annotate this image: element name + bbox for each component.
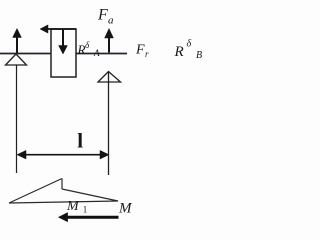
reaction arrow at A (up, filled) (13, 29, 22, 54)
svg-text:B: B (196, 50, 202, 61)
axial force Fa arrow (up, filled) (105, 29, 114, 53)
tangential force arrow (left, filled) (40, 25, 76, 33)
svg-text:A: A (93, 48, 100, 58)
svg-text:M: M (66, 199, 80, 214)
beam (shaft axis) (0, 53, 127, 55)
label Fr (135, 43, 149, 60)
svg-text:l: l (77, 129, 83, 153)
label M1 (66, 199, 87, 215)
extension line below support A (16, 65, 18, 173)
gear body box (51, 29, 76, 77)
svg-text:R: R (174, 44, 184, 60)
reaction arrow at B (up, hollow head) (98, 72, 121, 176)
svg-text:F: F (97, 7, 108, 24)
label Fa (97, 7, 114, 27)
svg-text:F: F (135, 43, 145, 58)
label R^b_B (174, 39, 203, 62)
radial force arrow inside box (down, filled) (59, 29, 68, 54)
moment diagram M1 outline (9, 179, 118, 204)
label R^b_A (77, 40, 101, 58)
support A triangle (6, 54, 27, 65)
svg-text:r: r (145, 49, 149, 59)
dimension line l (17, 150, 109, 159)
svg-text:M: M (118, 201, 133, 217)
torque arrow M (bold left) (58, 213, 118, 222)
svg-text:a: a (108, 15, 114, 27)
svg-text:1: 1 (83, 205, 88, 215)
svg-text:δ: δ (187, 39, 192, 50)
svg-text:δ: δ (85, 40, 90, 50)
